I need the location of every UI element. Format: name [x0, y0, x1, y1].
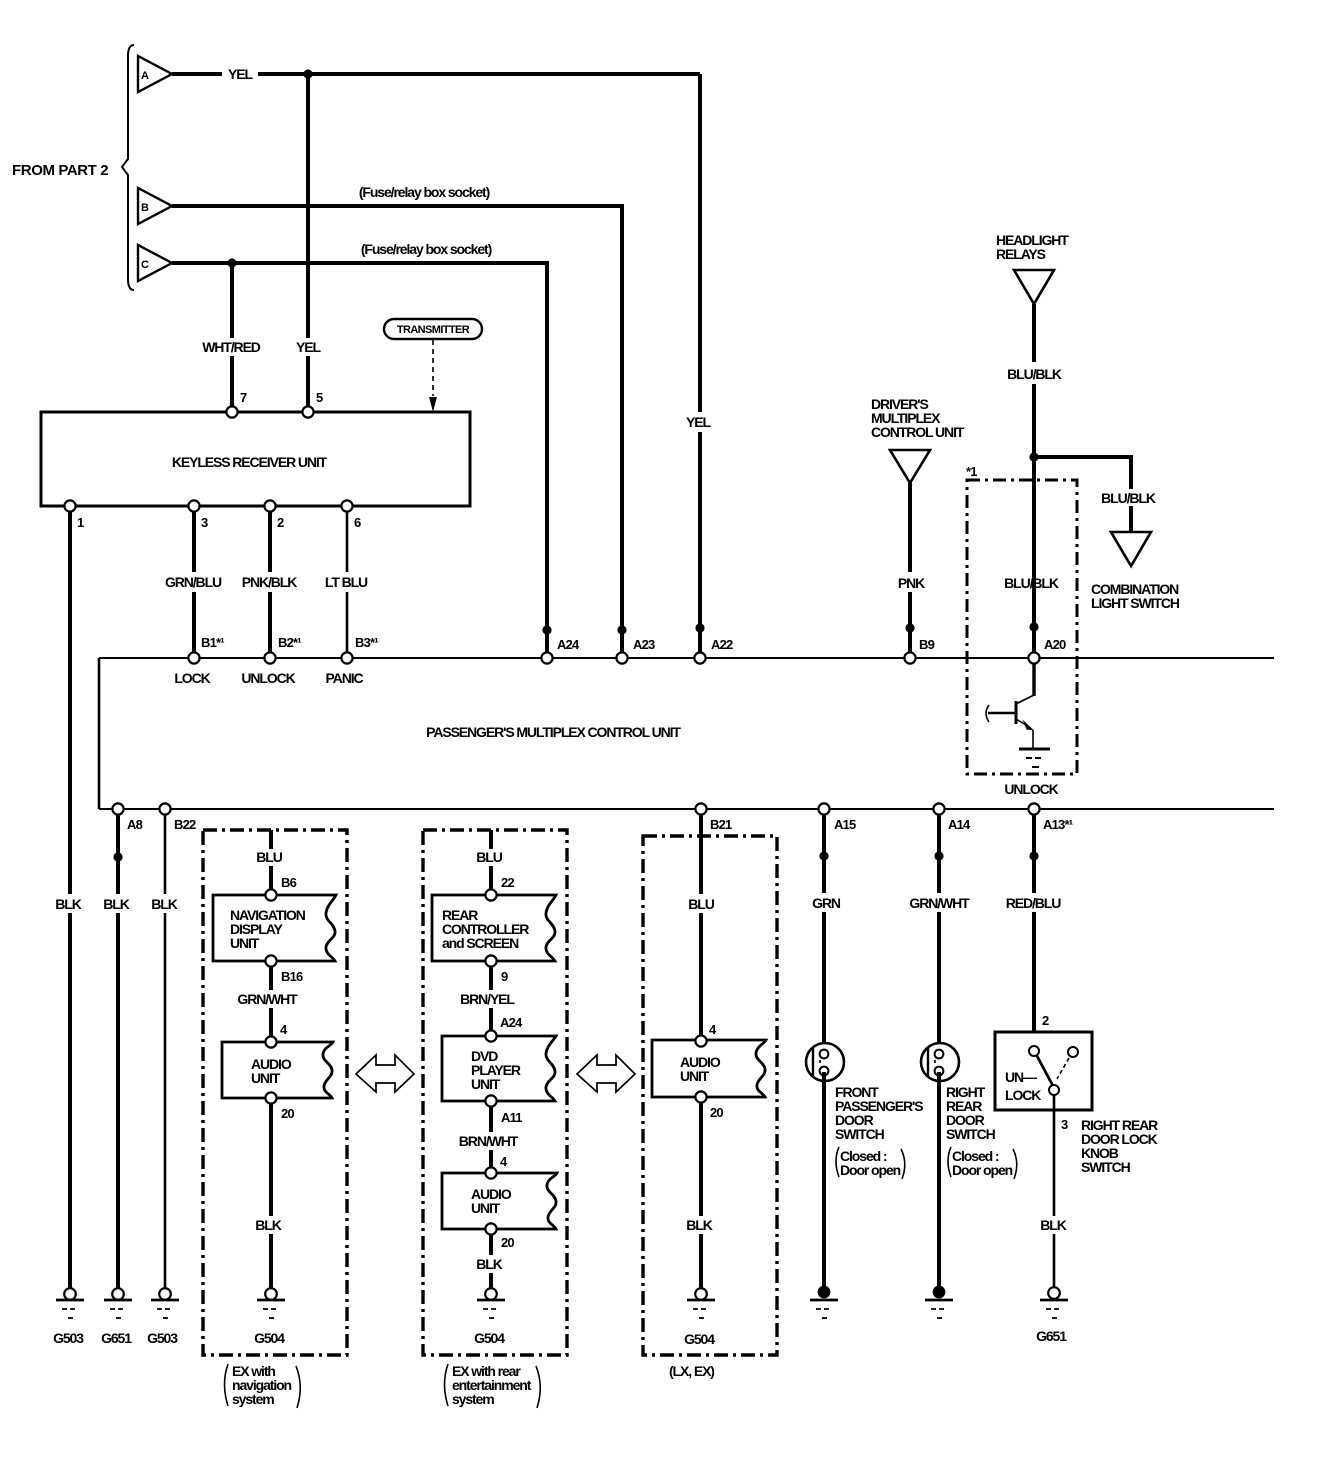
wire PNK from driver's unit to B9 [908, 483, 912, 652]
svg-text:BLK: BLK [686, 1217, 712, 1233]
junction dot above A24 [542, 625, 551, 634]
svg-text:system: system [232, 1391, 274, 1407]
svg-text:B: B [141, 202, 149, 214]
wire YEL from connector A [172, 72, 700, 76]
label LOCK [174, 670, 210, 686]
label BLK (pin1 wire) [55, 896, 81, 912]
junction dot above B9 [905, 623, 914, 632]
wire GRN/WHT from A14 [937, 815, 941, 1051]
label B2*1 [278, 635, 301, 650]
label GRN/WHT (box1) [237, 991, 298, 1007]
junction dot on A13 wire [1029, 851, 1038, 860]
label UNLOCK (below dash-dot box) [1004, 781, 1058, 797]
svg-text:YEL: YEL [686, 414, 711, 430]
ground G504 (box3) [684, 1288, 715, 1347]
junction dot on wire A at x=308 [303, 69, 312, 78]
wire branch to combination light switch [1034, 457, 1131, 532]
junction dot above A20 [1029, 622, 1038, 631]
svg-text:WHT/RED: WHT/RED [202, 339, 261, 355]
svg-text:B21: B21 [710, 817, 732, 832]
wire C horizontal then down to A24 [172, 263, 547, 652]
pin B9 circle on bus [904, 637, 934, 664]
svg-text:SWITCH: SWITCH [946, 1126, 996, 1142]
svg-text:UN—: UN— [1005, 1069, 1037, 1085]
junction dot above A23 [617, 625, 626, 634]
svg-text:20: 20 [281, 1106, 294, 1121]
svg-text:(Fuse/relay box socket): (Fuse/relay box socket) [359, 184, 490, 200]
svg-text:A11: A11 [501, 1110, 522, 1125]
connector A (triangle) [138, 56, 172, 92]
label GRN/BLU [165, 574, 222, 590]
svg-text:UNIT: UNIT [680, 1068, 710, 1084]
transmitter oval [384, 319, 482, 339]
svg-text:7: 7 [240, 390, 247, 405]
label COMBINATION LIGHT SWITCH [1091, 581, 1180, 611]
svg-text:(LX, EX): (LX, EX) [669, 1363, 714, 1379]
wire PNK/BLK from pin 2 to B2 [268, 512, 272, 652]
svg-text:A14: A14 [948, 817, 971, 832]
knob switch blade [1037, 1056, 1053, 1086]
svg-text:CONTROL UNIT: CONTROL UNIT [871, 424, 965, 440]
connector B (triangle) [138, 188, 172, 224]
junction dot on A15 wire [819, 851, 828, 860]
svg-text:A22: A22 [711, 637, 733, 652]
junction dot on A14 wire [934, 851, 943, 860]
label DRIVER'S MULTIPLEX CONTROL UNIT [871, 396, 965, 440]
wire BLK from B22 to ground G503 [164, 815, 167, 1288]
knob switch dashed alternate position [1057, 1058, 1069, 1079]
pin 4 circle (box2 audio) [485, 1167, 496, 1178]
pin 22 circle [485, 875, 514, 901]
knob switch top contact circle [1029, 1046, 1039, 1056]
junction dot on A8 wire [113, 852, 122, 861]
svg-text:SWITCH: SWITCH [1081, 1159, 1131, 1175]
svg-text:G504: G504 [474, 1330, 505, 1346]
pin A24 label (box2) [500, 1015, 523, 1030]
svg-text:TRANSMITTER: TRANSMITTER [397, 324, 470, 336]
label UN-LOCK [1005, 1069, 1041, 1103]
pin A24 circle on bus [541, 637, 580, 664]
svg-text:BLU: BLU [256, 849, 282, 865]
label BRN/WHT (box2) [459, 1133, 519, 1149]
pin B22 circle on bottom bus [159, 803, 196, 832]
dash-dot box *1 (unlock driver) [967, 480, 1077, 774]
label FRONT PASSENGER'S DOOR SWITCH [835, 1084, 923, 1179]
passenger's multiplex control unit left edge wire [98, 658, 101, 809]
pin 1 circle (keyless bottom) [64, 500, 84, 530]
wire BLK from knob switch to ground G651 [1053, 1095, 1056, 1288]
label BRN/YEL (box2) [460, 991, 515, 1007]
svg-text:G503: G503 [53, 1330, 84, 1346]
svg-text:B1*¹: B1*¹ [201, 635, 224, 650]
svg-text:PNK: PNK [898, 575, 925, 591]
pin 2 label (knob switch) [1042, 1013, 1049, 1028]
pin B6 circle [265, 875, 296, 901]
pin A14 circle on bottom bus [933, 803, 971, 832]
svg-text:A13*¹: A13*¹ [1043, 817, 1073, 832]
passenger's multiplex control unit top bus wire [99, 657, 1274, 659]
wire from door switch to ground (A15) [822, 1072, 826, 1288]
wire YEL vertical from wire A down to A22 [698, 74, 702, 652]
pin 4 label (box1) [280, 1022, 288, 1037]
label BLK (B22 wire) [151, 896, 177, 912]
label PNK [898, 575, 925, 591]
brace for FROM PART 2 [122, 45, 134, 290]
pin B2 circle on bus [264, 652, 275, 663]
svg-text:GRN/WHT: GRN/WHT [909, 895, 970, 911]
pin 20 circle (box2) [485, 1223, 514, 1250]
ground (A14 wire, filled) [925, 1286, 953, 1318]
svg-text:PASSENGER'S MULTIPLEX CONTROL: PASSENGER'S MULTIPLEX CONTROL UNIT [426, 724, 681, 740]
svg-text:Door open: Door open [840, 1162, 901, 1178]
svg-text:3: 3 [201, 515, 208, 530]
svg-text:LOCK: LOCK [174, 670, 210, 686]
pin 5 circle (keyless top) [302, 390, 323, 418]
wire B horizontal then down to A23 [172, 206, 622, 652]
svg-text:*1: *1 [966, 464, 977, 479]
label BLU/BLK (branch) [1101, 490, 1156, 506]
label PASSENGER'S MULTIPLEX CONTROL UNIT [426, 724, 681, 740]
pin B3 circle on bus [341, 652, 352, 663]
svg-text:A15: A15 [834, 817, 856, 832]
svg-text:BLK: BLK [476, 1256, 502, 1272]
label RED/BLU [1006, 895, 1062, 911]
caption (EX with navigation system) [225, 1363, 301, 1408]
ground G651 (A8 wire) [101, 1288, 132, 1346]
wire from door switch to ground (A14) [937, 1072, 941, 1288]
pin 9 circle [485, 955, 508, 984]
dash-dot box: EX with rear entertainment system [423, 830, 567, 1355]
svg-text:20: 20 [501, 1235, 514, 1250]
svg-text:6: 6 [354, 515, 361, 530]
svg-text:1: 1 [77, 515, 84, 530]
wire BLK (box3) [699, 1103, 703, 1289]
wire BRN/WHT (box2) [489, 1107, 493, 1167]
pin A24 circle (dvd) [485, 1030, 496, 1041]
connector triangle from driver's multiplex control unit [890, 450, 930, 483]
svg-text:BLU/BLK: BLU/BLK [1007, 366, 1062, 382]
svg-text:BLU/BLK: BLU/BLK [1004, 575, 1059, 591]
wire LT BLU from pin 6 to B3 [346, 512, 349, 652]
svg-text:UNLOCK: UNLOCK [241, 670, 295, 686]
pin 4 circle (box3 audio) [695, 1035, 706, 1046]
svg-text:A23: A23 [633, 637, 655, 652]
audio unit box (box3) [652, 1040, 766, 1097]
wire GRN/WHT (box1) [269, 967, 273, 1036]
svg-text:A: A [141, 70, 149, 82]
wire BLU (box2) [489, 830, 493, 889]
passenger's multiplex control unit bottom bus wire [99, 808, 1274, 810]
right rear door lock knob switch box [995, 1032, 1092, 1110]
label WHT/RED [202, 339, 261, 355]
svg-text:LOCK: LOCK [1005, 1087, 1041, 1103]
pin A13 circle on bottom bus [1028, 803, 1072, 832]
svg-text:UNIT: UNIT [230, 935, 260, 951]
pin B21 circle on bottom bus [695, 803, 732, 832]
label RIGHT REAR DOOR SWITCH [946, 1084, 1017, 1179]
svg-text:A20: A20 [1044, 637, 1066, 652]
wire BLU from B21 (box3) [699, 815, 703, 1036]
svg-text:RELAYS: RELAYS [996, 246, 1046, 262]
pin A8 circle on bottom bus [112, 803, 142, 832]
pin 4 label (box2) [500, 1154, 508, 1169]
svg-text:YEL: YEL [228, 66, 253, 82]
svg-text:G503: G503 [147, 1330, 178, 1346]
pin 4 label (box3) [709, 1022, 717, 1037]
junction dot on wire C at x=232 [227, 258, 236, 267]
transistor base lead with curl [986, 705, 1015, 722]
svg-text:PANIC: PANIC [325, 670, 363, 686]
svg-text:UNIT: UNIT [471, 1076, 501, 1092]
knob switch bottom contact circle [1049, 1085, 1059, 1095]
pin 4 circle (box1 audio) [265, 1036, 276, 1047]
svg-text:20: 20 [710, 1105, 723, 1120]
svg-text:B9: B9 [919, 637, 935, 652]
ground G651 (knob switch wire) [1036, 1287, 1068, 1344]
svg-text:BLK: BLK [1040, 1217, 1066, 1233]
svg-text:B22: B22 [174, 817, 196, 832]
svg-text:BLU: BLU [688, 896, 714, 912]
junction dot on BLU/BLK wire [1029, 452, 1038, 461]
label PNK/BLK [242, 574, 298, 590]
svg-text:3: 3 [1061, 1117, 1068, 1132]
label PANIC [325, 670, 363, 686]
svg-text:G504: G504 [254, 1330, 285, 1346]
wire BLU (box1) [269, 830, 273, 889]
svg-text:A24: A24 [500, 1015, 523, 1030]
wire RED/BLU from A13 [1032, 815, 1036, 1046]
connector C (triangle) [138, 245, 172, 281]
pin 20 circle (box3) [695, 1091, 723, 1120]
pin 3 circle (keyless bottom) [188, 500, 208, 530]
label GRN [812, 895, 841, 911]
svg-text:B2*¹: B2*¹ [278, 635, 301, 650]
svg-text:GRN: GRN [812, 895, 841, 911]
svg-text:and SCREEN: and SCREEN [442, 935, 519, 951]
caption (LX, EX) [669, 1363, 714, 1379]
pin B16 circle [265, 955, 303, 984]
junction dot above A22 [695, 623, 704, 632]
wire BRN/YEL (box2) [489, 967, 493, 1030]
label BLK (box2) [476, 1256, 502, 1272]
transistor Q (unlock driver) collector wire [1016, 664, 1034, 704]
svg-text:BLK: BLK [103, 896, 129, 912]
svg-text:YEL: YEL [296, 339, 321, 355]
pin 6 circle (keyless bottom) [341, 500, 361, 530]
svg-text:BRN/WHT: BRN/WHT [459, 1133, 519, 1149]
label BLK (knob switch wire) [1040, 1217, 1066, 1233]
label GRN/WHT [909, 895, 970, 911]
svg-text:5: 5 [316, 390, 323, 405]
dash-dot box: LX, EX [643, 836, 777, 1355]
label YEL (vertical) [296, 339, 321, 355]
svg-text:(Fuse/relay box socket): (Fuse/relay box socket) [361, 241, 492, 257]
svg-text:UNLOCK: UNLOCK [1004, 781, 1058, 797]
svg-text:22: 22 [501, 875, 514, 890]
label BLU/BLK (headlight wire) [1007, 366, 1062, 382]
svg-text:B3*¹: B3*¹ [355, 635, 378, 650]
label RIGHT REAR DOOR LOCK KNOB SWITCH [1081, 1117, 1158, 1175]
pin A15 circle on bottom bus [818, 803, 856, 832]
wire BLK from A8 to ground G651 [116, 815, 120, 1288]
ground G503 (B22 wire) [147, 1288, 179, 1346]
label UNLOCK [241, 670, 295, 686]
svg-text:BRN/YEL: BRN/YEL [460, 991, 515, 1007]
svg-text:A24: A24 [557, 637, 580, 652]
pin 2 circle (keyless bottom) [264, 500, 284, 530]
svg-text:G651: G651 [101, 1330, 132, 1346]
front passenger's door switch (circle symbol) [806, 1043, 844, 1081]
wire GRN/BLU from pin 3 to B1 [192, 512, 196, 652]
svg-text:B16: B16 [281, 969, 303, 984]
wire GRN from A15 [822, 815, 826, 1051]
svg-text:UNIT: UNIT [251, 1070, 281, 1086]
label BLK (box3) [686, 1217, 712, 1233]
svg-text:A8: A8 [127, 817, 143, 832]
audio unit box (box2) [442, 1173, 557, 1229]
wire BLK (box2) [489, 1235, 493, 1289]
label BLU (box3) [688, 896, 714, 912]
wire BLU/BLK from headlight relays down [1032, 304, 1036, 652]
svg-text:PNK/BLK: PNK/BLK [242, 574, 298, 590]
label BLU (box2) [476, 849, 502, 865]
wire BLK from pin 1 down to ground G503 [68, 512, 72, 1288]
pin 7 circle (keyless top) [226, 390, 247, 418]
svg-text:BLK: BLK [255, 1217, 281, 1233]
dashed arrow from transmitter to keyless receiver unit [429, 340, 437, 412]
label HEADLIGHT RELAYS [996, 232, 1069, 262]
pin A20 circle on bus [1028, 637, 1066, 664]
dash-dot box: EX with navigation system [203, 830, 347, 1355]
ground (A15 wire, filled) [810, 1286, 838, 1318]
rear controller and screen box [432, 895, 556, 961]
pin 20 circle (box1) [265, 1092, 294, 1121]
svg-text:BLK: BLK [151, 896, 177, 912]
label BLK (box1) [255, 1217, 281, 1233]
keyless receiver unit box [41, 412, 470, 506]
dvd player unit box [442, 1036, 556, 1101]
svg-text:G504: G504 [684, 1331, 715, 1347]
svg-text:SWITCH: SWITCH [835, 1126, 885, 1142]
pin B1 circle on bus [188, 652, 199, 663]
ground G504 (box1) [254, 1288, 285, 1346]
label YEL (A22 wire) [686, 414, 711, 430]
transistor base bar [1015, 701, 1018, 724]
double arrow between box1 and box2 [356, 1055, 414, 1092]
ground G503 (pin1 wire) [53, 1288, 84, 1346]
wire BLK (box1) [269, 1104, 273, 1289]
svg-text:C: C [141, 259, 149, 271]
svg-text:9: 9 [501, 969, 508, 984]
right rear door switch (circle symbol) [921, 1043, 959, 1081]
svg-text:LT BLU: LT BLU [325, 574, 368, 590]
svg-text:LIGHT SWITCH: LIGHT SWITCH [1091, 595, 1180, 611]
svg-text:KEYLESS RECEIVER UNIT: KEYLESS RECEIVER UNIT [172, 454, 328, 470]
svg-text:G651: G651 [1036, 1328, 1067, 1344]
ground G504 (box2) [474, 1288, 505, 1346]
wire WHT/RED from junction C down to keyless pin 7 [230, 263, 234, 407]
label B1*1 [201, 635, 224, 650]
ground symbol (transistor emitter) [1019, 749, 1050, 767]
svg-text:Door open: Door open [952, 1162, 1013, 1178]
svg-text:BLK: BLK [55, 896, 81, 912]
label YEL (wire A) [228, 66, 253, 82]
node FROM PART 2 label [12, 162, 108, 179]
label (Fuse/relay box socket) for wire B [359, 184, 490, 200]
label (Fuse/relay box socket) for wire C [361, 241, 492, 257]
svg-text:RED/BLU: RED/BLU [1006, 895, 1062, 911]
svg-text:BLU/BLK: BLU/BLK [1101, 490, 1156, 506]
caption (EX with rear entertainment system) [445, 1363, 541, 1408]
wire YEL vertical from junction A down to keyless pin 5 [306, 74, 310, 407]
label BLK (A8 wire) [103, 896, 129, 912]
svg-text:2: 2 [1042, 1013, 1049, 1028]
label LT BLU [325, 574, 368, 590]
pin A22 circle on bus [694, 637, 733, 664]
svg-text:B6: B6 [281, 875, 297, 890]
double arrow between box2 and box3 [577, 1055, 635, 1092]
svg-text:FROM PART 2: FROM PART 2 [12, 162, 108, 179]
label *1 for dash-dot box [966, 464, 977, 479]
svg-text:GRN/BLU: GRN/BLU [165, 574, 222, 590]
svg-text:GRN/WHT: GRN/WHT [237, 991, 298, 1007]
svg-text:system: system [452, 1391, 494, 1407]
svg-text:UNIT: UNIT [471, 1200, 501, 1216]
navigation display unit box [213, 895, 336, 961]
pin 3 label (knob switch) [1061, 1117, 1068, 1132]
pin A11 circle [485, 1095, 522, 1125]
svg-text:2: 2 [277, 515, 284, 530]
pin A23 circle on bus [616, 637, 655, 664]
svg-text:BLU: BLU [476, 849, 502, 865]
connector triangle to combination light switch [1111, 532, 1151, 566]
connector triangle to headlight relays [1014, 270, 1054, 304]
transistor emitter with arrow [1016, 719, 1034, 748]
label BLU/BLK (inside box) [1004, 575, 1059, 591]
label B3*1 [355, 635, 378, 650]
label BLU (box1) [256, 849, 282, 865]
knob switch right contact circle [1068, 1047, 1078, 1057]
audio unit box (box1) [222, 1042, 333, 1098]
